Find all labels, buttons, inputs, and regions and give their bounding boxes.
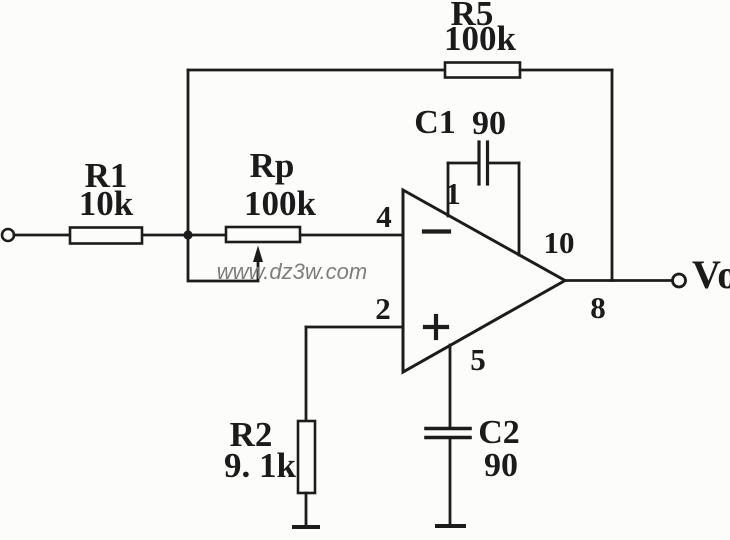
svg-text:90: 90	[484, 447, 518, 484]
svg-text:100k: 100k	[444, 19, 517, 58]
wire pin 10 vertical	[518, 163, 521, 255]
svg-text:Rp: Rp	[250, 146, 295, 185]
capacitor C1 plates	[477, 142, 480, 184]
svg-text:1: 1	[445, 176, 461, 211]
wire C1 right lead	[488, 162, 520, 165]
ground bar under C2	[437, 524, 464, 528]
svg-text:4: 4	[376, 199, 392, 234]
resistor R5	[445, 63, 520, 78]
wiper loop wire (junction down, right, up to arrow)	[188, 235, 258, 281]
node A (junction R1/Rp/feedback)	[183, 230, 192, 239]
wire right vertical feedback	[611, 70, 614, 281]
svg-text:www.dz3w.com: www.dz3w.com	[217, 259, 367, 284]
svg-text:8: 8	[590, 290, 606, 325]
potentiometer Rp body	[226, 227, 300, 242]
svg-text:100k: 100k	[244, 184, 317, 223]
svg-text:C1: C1	[414, 104, 456, 141]
wire R5 to right corner	[520, 69, 612, 72]
svg-text:C2: C2	[478, 414, 520, 451]
wire output	[565, 279, 672, 282]
wire R2 to ground	[305, 493, 308, 526]
resistor R1	[70, 228, 142, 244]
svg-text:90: 90	[472, 105, 506, 142]
wire pin 5 vertical	[449, 345, 452, 428]
svg-text:10k: 10k	[79, 184, 134, 223]
op-amp U1 triangle	[403, 190, 565, 372]
wire pin 2 down to R2	[305, 327, 308, 421]
svg-text:Vo: Vo	[692, 252, 730, 297]
svg-text:2: 2	[375, 291, 391, 326]
wire pin 1 vertical	[447, 163, 450, 216]
input terminal	[2, 229, 14, 241]
wire Rp to op-amp pin 4	[300, 234, 403, 237]
output terminal	[673, 274, 686, 287]
wire C1 left lead	[448, 162, 479, 165]
potentiometer wiper arrow	[253, 246, 263, 263]
wire R1 to Rp (through junction)	[142, 234, 226, 237]
wire pin 2 horizontal	[306, 326, 403, 329]
svg-text:9. 1k: 9. 1k	[224, 446, 297, 485]
wire input to R1	[14, 234, 70, 237]
svg-text:10: 10	[544, 225, 575, 260]
capacitor C2 plates	[426, 427, 470, 431]
minus sign (inverting input)	[424, 229, 449, 233]
wire C2 to ground	[449, 438, 452, 526]
svg-text:5: 5	[470, 342, 486, 377]
plus sign (non-inverting input)	[425, 325, 447, 329]
ground bar under R2	[294, 525, 318, 529]
wire top feedback left segment	[188, 69, 445, 72]
resistor R2	[298, 421, 315, 493]
wire junction up to feedback line	[187, 70, 190, 235]
